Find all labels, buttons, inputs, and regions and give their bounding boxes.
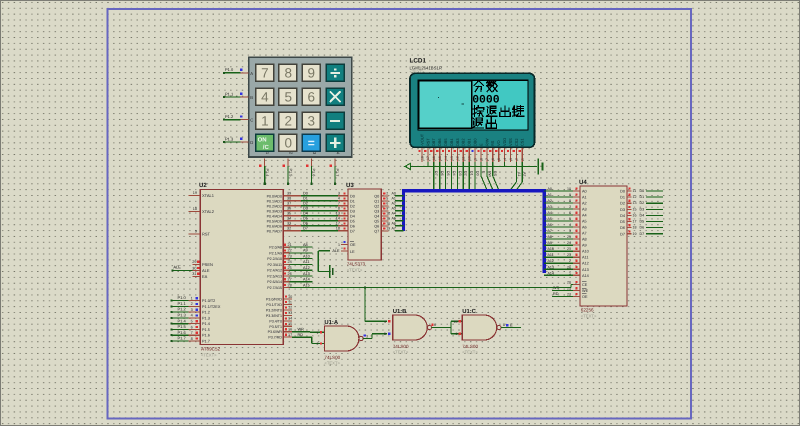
U3 pin D5 Q5 row (350, 217, 404, 224)
svg-text:A8: A8 (548, 235, 552, 239)
svg-text:4: 4 (384, 320, 386, 324)
svg-text:15: 15 (438, 156, 442, 160)
svg-text:A0: A0 (548, 187, 552, 191)
svg-text:2: 2 (515, 158, 519, 160)
svg-text:8: 8 (191, 337, 193, 341)
svg-text:A11: A11 (548, 253, 554, 257)
svg-text:A14: A14 (303, 278, 310, 282)
svg-text:D0: D0 (350, 194, 355, 198)
svg-text:1: 1 (569, 271, 571, 275)
LCD1 pin name labels rotated (419, 133, 524, 146)
ground arrow symbol left of LCD ground rail (403, 163, 411, 169)
U2 pin 33 P0.6/AD6 wire net D6 to U3 (267, 222, 348, 229)
wire U1:C output pin 8 net E (501, 322, 521, 327)
svg-text:PSEN: PSEN (202, 262, 213, 267)
svg-text:A2: A2 (392, 202, 396, 206)
svg-text:AT89C52: AT89C52 (201, 347, 221, 352)
svg-text:A2: A2 (523, 172, 527, 176)
svg-text:18: 18 (420, 156, 424, 160)
U2 pin 26 P2.5/A13 wire net A13 (267, 272, 312, 279)
U4 pin 19 D7 wire net D7 (620, 230, 663, 236)
svg-text:A3: A3 (548, 205, 552, 209)
svg-text:P0.1/AD1: P0.1/AD1 (267, 199, 282, 203)
svg-text:P2.3/A11: P2.3/A11 (267, 263, 282, 267)
U2 pin 23 P2.2/A10 wire net A10 (267, 254, 312, 261)
svg-text:EA: EA (202, 274, 208, 279)
svg-text:Q4: Q4 (374, 214, 379, 218)
wire keypad row D net P1.3 (223, 136, 249, 143)
U2 pin 27 P2.6/A14 wire net A14 (267, 278, 312, 285)
wire keypad column 4 net P1.7 (329, 158, 339, 185)
svg-text:Q2: Q2 (374, 204, 379, 208)
svg-text:RST: RST (202, 231, 211, 236)
svg-text:26: 26 (288, 272, 292, 276)
svg-text:D3: D3 (350, 209, 355, 213)
LCD1 screen text line2 0000 (472, 95, 500, 107)
svg-text:XTAL1: XTAL1 (202, 193, 215, 198)
svg-text:VSS: VSS (508, 138, 513, 146)
svg-text:P1.6: P1.6 (312, 169, 316, 177)
svg-text:P1.7: P1.7 (202, 339, 210, 343)
U2 pin 36 P0.3/AD3 wire net D3 to U3 (267, 207, 348, 214)
svg-text:13: 13 (450, 156, 454, 160)
wire LCD DB7 to bus net D7 (434, 162, 438, 190)
svg-text:14: 14 (288, 317, 292, 321)
U2 pin 14 P3.4/T0 (269, 317, 292, 324)
svg-text:19: 19 (386, 227, 390, 231)
svg-text:<TEXT>: <TEXT> (324, 361, 340, 366)
svg-text:D2: D2 (620, 202, 625, 206)
wire keypad column 2 net P1.5 (283, 158, 293, 185)
U2 pin 19 XTAL1 (189, 191, 215, 198)
svg-text:P1.2: P1.2 (225, 114, 234, 119)
svg-text:DB5: DB5 (443, 138, 448, 146)
bus main address bus blue (404, 191, 545, 273)
svg-text:P1.7: P1.7 (335, 169, 339, 177)
U4 pin 7 A3 wire from bus (544, 205, 586, 212)
svg-text:A0: A0 (582, 190, 587, 194)
svg-text:A5: A5 (582, 220, 587, 224)
svg-text:3: 3 (191, 308, 193, 312)
svg-text:2: 2 (284, 114, 292, 129)
LCD1 reference label (410, 58, 443, 75)
svg-text:D7: D7 (303, 227, 308, 231)
wire LCD DB3 to bus net D3 (457, 162, 461, 190)
wire LCD DB6 to bus net D6 (440, 162, 444, 190)
U2 pin 30 ALE (192, 266, 210, 273)
svg-text:P1.1: P1.1 (178, 301, 187, 306)
U3 pin D4 Q4 row (350, 212, 404, 219)
U4 pin 25 A8 wire from bus (544, 235, 586, 242)
svg-text:<TEXT>: <TEXT> (581, 314, 597, 319)
svg-text:A9: A9 (303, 249, 308, 253)
svg-text:0: 0 (284, 136, 292, 151)
U4 pin 10 A0 wire from bus (544, 187, 586, 194)
svg-text:LCD1: LCD1 (410, 58, 427, 65)
svg-text:11: 11 (633, 189, 637, 193)
svg-text:D6: D6 (620, 226, 625, 230)
svg-text:P3.6/WR: P3.6/WR (268, 330, 283, 334)
svg-text:P1.2: P1.2 (202, 311, 210, 315)
svg-text:7: 7 (485, 158, 489, 160)
svg-text:A3: A3 (582, 208, 587, 212)
svg-text:DB4: DB4 (449, 138, 454, 146)
svg-text:D6: D6 (350, 224, 355, 228)
svg-text:P2.7/A15: P2.7/A15 (267, 286, 282, 290)
U2 pin 4 P1.3 and wire net P1.3 (171, 313, 210, 321)
svg-text:A10: A10 (548, 247, 554, 251)
U4 pin 21 A10 wire from bus (544, 247, 589, 254)
svg-text:A15: A15 (303, 283, 310, 287)
svg-text:74LS00: 74LS00 (393, 344, 409, 349)
svg-text:D5: D5 (446, 171, 450, 176)
svg-text:OE: OE (582, 295, 588, 299)
wire net RD to U4 OE (552, 292, 573, 296)
svg-text:12: 12 (386, 212, 390, 216)
svg-text:30: 30 (192, 266, 196, 270)
svg-text:DB2: DB2 (461, 138, 466, 146)
svg-text:15: 15 (386, 217, 390, 221)
svg-text:14: 14 (336, 217, 340, 221)
svg-text:P0.3/AD3: P0.3/AD3 (267, 209, 282, 213)
U2 pin 31 EA (192, 272, 207, 279)
sheet border (108, 9, 692, 419)
op-amp U2 AT89C52 microcontroller body (199, 182, 283, 358)
svg-text:P0.7/AD7: P0.7/AD7 (267, 229, 282, 233)
U4 pin 2 A12 wire from bus (544, 259, 589, 266)
svg-text:=: = (308, 136, 315, 150)
svg-text:A1: A1 (392, 197, 396, 201)
wire LCD DB4 to bus net D4 (452, 162, 456, 190)
U2 pin 16 P3.6/WR (268, 328, 293, 335)
svg-text:RS: RS (490, 140, 495, 146)
svg-text:A6: A6 (392, 222, 396, 226)
U2 pin 37 P0.2/AD2 wire net D2 to U3 (267, 202, 348, 209)
svg-text:10: 10 (468, 156, 472, 160)
svg-text:A14: A14 (548, 271, 554, 275)
svg-text:37: 37 (287, 202, 291, 206)
U2 pin 7 P1.6 and wire net P1.6 (171, 330, 210, 338)
svg-text:11: 11 (288, 300, 292, 304)
svg-text:21: 21 (288, 243, 292, 247)
U4 pin 26 A13 wire from bus (544, 265, 589, 272)
wire LCD RS to bus (493, 162, 499, 190)
svg-text:P1.6: P1.6 (202, 334, 210, 338)
svg-text:A0: A0 (392, 192, 396, 196)
U2 pin 13 P3.3/INT1 (266, 311, 292, 318)
svg-text:D4: D4 (350, 214, 355, 218)
U2 pin 18 XTAL2 (189, 207, 215, 214)
wire keypad row B net P1.1 (223, 91, 249, 98)
svg-text:8: 8 (284, 66, 292, 81)
svg-text:7: 7 (569, 205, 571, 209)
U4 pin 18 D6 wire net D6 (620, 224, 663, 230)
U4 pin 16 D4 wire net D4 (620, 212, 663, 218)
svg-text:23: 23 (288, 254, 292, 258)
U2 pin 1 P1.0/T2 and wire net P1.0 (171, 295, 216, 303)
svg-text:U3: U3 (346, 182, 354, 189)
svg-text:D5: D5 (640, 220, 645, 224)
svg-text:P1.3: P1.3 (225, 136, 234, 141)
svg-text:P1.0/T2: P1.0/T2 (202, 299, 215, 303)
U2 pin 9 RST (189, 229, 211, 236)
svg-text:D3: D3 (640, 207, 645, 211)
svg-text:4: 4 (261, 90, 269, 105)
U3 pin D1 Q1 row (350, 197, 404, 204)
svg-text:DB0: DB0 (473, 138, 478, 146)
svg-text:P1.4: P1.4 (265, 169, 269, 177)
svg-text:P3.3/INT1: P3.3/INT1 (266, 314, 282, 318)
svg-text:D7: D7 (640, 232, 645, 236)
svg-text:5: 5 (569, 217, 571, 221)
svg-text:74LS00: 74LS00 (462, 344, 478, 349)
svg-text:A9: A9 (548, 241, 552, 245)
svg-text:4: 4 (338, 197, 340, 201)
U2 pin 3 P1.2 and wire net P1.2 (171, 307, 210, 315)
keypad digit keys 0-9 (256, 64, 320, 151)
svg-text:D0: D0 (476, 171, 480, 176)
svg-text:25: 25 (567, 235, 571, 239)
svg-text:6: 6 (191, 325, 193, 329)
svg-text:D7: D7 (434, 171, 438, 176)
svg-text:DB1: DB1 (467, 138, 472, 146)
U2 pin 6 P1.5 and wire net P1.5 (171, 324, 210, 332)
svg-text:D1: D1 (350, 199, 355, 203)
wire keypad column 3 net P1.6 (306, 158, 316, 185)
svg-text:A6: A6 (582, 226, 587, 230)
svg-text:62256: 62256 (581, 308, 594, 313)
svg-text:1: 1 (261, 114, 269, 129)
svg-text:7: 7 (261, 66, 269, 81)
svg-text:P1.6: P1.6 (178, 330, 187, 335)
battery cell symbol right of LCD ground rail (538, 159, 542, 175)
svg-text:WR: WR (553, 286, 560, 290)
U4 pin 20 CE (567, 281, 588, 288)
svg-text:3: 3 (569, 229, 571, 233)
svg-text:P1.5: P1.5 (178, 324, 187, 329)
svg-text:P2.2/A10: P2.2/A10 (267, 257, 282, 261)
svg-text:36: 36 (287, 207, 291, 211)
U3 pin D2 Q2 row (350, 202, 404, 209)
svg-text:P0.0/AD0: P0.0/AD0 (267, 194, 282, 198)
svg-text:D2: D2 (350, 204, 355, 208)
svg-text:D4: D4 (640, 213, 645, 217)
svg-text:CS1: CS1 (520, 138, 525, 146)
svg-text:P1.4: P1.4 (202, 322, 210, 326)
svg-text:DB7: DB7 (431, 138, 436, 146)
svg-text:P1.0: P1.0 (178, 295, 187, 300)
svg-text:9: 9 (456, 332, 458, 336)
svg-text:P1.3: P1.3 (178, 313, 187, 318)
wire U2 ALE net label (172, 265, 193, 272)
wire keypad row A net P1.0 (223, 67, 249, 74)
U4 62256 SRAM body (579, 179, 627, 319)
LCD1 pin stubs and pin numbers (418, 148, 524, 162)
svg-text:5: 5 (497, 158, 501, 160)
U2 pin 5 P1.4 and wire net P1.4 (171, 318, 210, 326)
svg-text:3: 3 (338, 192, 340, 196)
LCD1 screen text line3 an-tui-chu-jian (473, 106, 524, 117)
svg-text:4: 4 (569, 223, 571, 227)
svg-text:24: 24 (567, 241, 571, 245)
U4 pin 6 A4 wire from bus (544, 211, 586, 218)
svg-text:CE: CE (582, 283, 588, 287)
U4 pin 12 D1 wire net D1 (620, 194, 663, 200)
svg-text:A8: A8 (303, 243, 308, 247)
svg-text:A4: A4 (392, 212, 396, 216)
transistor U1:B NAND gate 74LS00 (384, 308, 432, 354)
U4 pin 11 D0 wire net D0 (620, 188, 663, 194)
svg-text:13: 13 (288, 311, 292, 315)
svg-text:9: 9 (386, 207, 388, 211)
LCD1 screen (418, 80, 528, 130)
U3 74LS373 latch body (346, 182, 381, 273)
svg-text:A13: A13 (582, 268, 589, 272)
svg-text:6: 6 (386, 202, 388, 206)
svg-text:D1: D1 (640, 195, 645, 199)
svg-text:Q0: Q0 (374, 194, 379, 198)
U2 pin 22 P2.1/A9 wire net A9 (269, 249, 312, 256)
svg-text:P0.4/AD4: P0.4/AD4 (267, 214, 282, 218)
U2 pin 12 P3.2/INT0 (266, 306, 292, 313)
svg-text:P3.2/INT0: P3.2/INT0 (266, 308, 282, 312)
svg-text:P3.4/T0: P3.4/T0 (269, 319, 282, 323)
svg-text:12: 12 (633, 195, 637, 199)
svg-text:<TEXT>: <TEXT> (393, 350, 409, 355)
svg-text:18: 18 (633, 226, 637, 230)
svg-text:U4: U4 (579, 179, 587, 186)
svg-text:P1.1: P1.1 (225, 91, 234, 96)
svg-text:6: 6 (308, 90, 316, 105)
svg-text:<TEXT>: <TEXT> (462, 350, 478, 355)
LCD1 screen text line1 fen-shu (474, 81, 497, 92)
svg-text:12: 12 (288, 306, 292, 310)
U4 pin 22 OE (567, 292, 588, 299)
U4 pin 9 A1 wire from bus (544, 193, 586, 200)
svg-text:P2.4/A12: P2.4/A12 (267, 269, 282, 273)
U4 pin 1 A14 wire from bus (544, 271, 589, 278)
svg-text:D2: D2 (303, 202, 308, 206)
U2 pin 34 P0.5/AD5 wire net D5 to U3 (267, 217, 348, 224)
svg-text:2: 2 (191, 302, 193, 306)
wire LCD DB0 to bus net D0 (475, 162, 479, 190)
svg-text:D2: D2 (640, 201, 645, 205)
svg-text:39: 39 (287, 192, 291, 196)
svg-text:P2.5/A13: P2.5/A13 (267, 274, 282, 278)
U4 pin 24 A9 wire from bus (544, 241, 586, 248)
svg-text:A2: A2 (582, 202, 587, 206)
wire junction to U1:B input 4 (364, 286, 387, 321)
svg-text:10: 10 (454, 320, 458, 324)
svg-text:3: 3 (308, 114, 316, 129)
svg-text:-VOUT: -VOUT (419, 133, 424, 146)
svg-text:8: 8 (479, 158, 483, 160)
svg-text:34: 34 (287, 217, 291, 221)
svg-text:16: 16 (288, 328, 292, 332)
svg-text:26: 26 (567, 265, 571, 269)
svg-text:3: 3 (509, 158, 513, 160)
svg-text:D0: D0 (640, 189, 645, 193)
svg-text:A1: A1 (582, 196, 587, 200)
svg-text:D2: D2 (464, 171, 468, 176)
svg-text:A5: A5 (392, 217, 396, 221)
svg-text:D: D (250, 140, 253, 145)
keypad equals key (302, 134, 320, 151)
svg-text:<TEXT>: <TEXT> (201, 353, 217, 358)
svg-text:7: 7 (191, 331, 193, 335)
keypad row labels A B C D (250, 71, 253, 145)
svg-text:20: 20 (567, 281, 571, 285)
svg-text:RW: RW (487, 171, 491, 178)
svg-text:4: 4 (503, 158, 507, 160)
svg-text:P1.5: P1.5 (288, 169, 292, 177)
svg-text:D5: D5 (303, 217, 308, 221)
svg-text:A14: A14 (582, 274, 589, 278)
svg-text:16: 16 (633, 213, 637, 217)
svg-text:P2.0/A8: P2.0/A8 (269, 246, 282, 250)
svg-text:P1.5: P1.5 (202, 328, 210, 332)
svg-text:RD: RD (553, 292, 559, 296)
svg-text:27: 27 (288, 278, 292, 282)
U2 pin 29 PSEN (192, 260, 213, 267)
wire LCD E to bus (481, 162, 487, 190)
wire LCD RST pin to ground rail (427, 162, 429, 167)
svg-text:19: 19 (193, 191, 197, 195)
svg-text:14: 14 (444, 156, 448, 160)
svg-text:7: 7 (338, 202, 340, 206)
keypad column labels 1 2 3 4 (265, 152, 340, 155)
svg-text:33: 33 (287, 222, 291, 226)
svg-text:D0: D0 (303, 192, 308, 196)
svg-text:A11: A11 (582, 256, 588, 260)
svg-text:23: 23 (567, 253, 571, 257)
svg-text:A6: A6 (548, 223, 552, 227)
LCD1 body LGM12641BS1R (410, 73, 535, 147)
svg-text:RS: RS (493, 171, 497, 177)
svg-text:P1.1/T2EX: P1.1/T2EX (202, 305, 221, 309)
wire LCD RW to bus (487, 162, 493, 190)
svg-text:D7: D7 (620, 232, 625, 236)
svg-text:18: 18 (193, 207, 197, 211)
U2 pin 32 P0.7/AD7 wire net D7 to U3 (267, 227, 348, 234)
U4 pin 17 D5 wire net D5 (620, 218, 663, 224)
svg-text:P1.2: P1.2 (178, 307, 187, 312)
svg-text:D5: D5 (350, 219, 355, 223)
svg-text:24: 24 (288, 260, 292, 264)
svg-text:17: 17 (336, 222, 340, 226)
U2 pin 8 P1.7 and wire net P1.7 (171, 336, 210, 344)
transistor U1:C NAND gate 74LS00 (454, 308, 502, 354)
svg-text:22: 22 (567, 292, 571, 296)
svg-text:D0: D0 (620, 190, 625, 194)
svg-text:74LS373: 74LS373 (347, 262, 366, 267)
svg-text:5: 5 (386, 197, 388, 201)
svg-text:P3.5/T1: P3.5/T1 (269, 325, 282, 329)
svg-text:21: 21 (567, 247, 571, 251)
svg-text:U2: U2 (199, 182, 207, 189)
svg-text:D4: D4 (303, 212, 308, 216)
svg-text:A: A (250, 71, 253, 76)
svg-text:A4: A4 (582, 214, 587, 218)
svg-text:12: 12 (456, 156, 460, 160)
U3 pin D7 Q7 row (350, 227, 404, 234)
svg-text:LE: LE (350, 250, 355, 254)
svg-text:OE: OE (350, 243, 356, 247)
U2 pin 24 P2.3/A11 wire net A11 (267, 260, 312, 267)
svg-text:A2: A2 (548, 199, 552, 203)
svg-text:1: 1 (521, 158, 525, 160)
svg-text:35: 35 (287, 212, 291, 216)
